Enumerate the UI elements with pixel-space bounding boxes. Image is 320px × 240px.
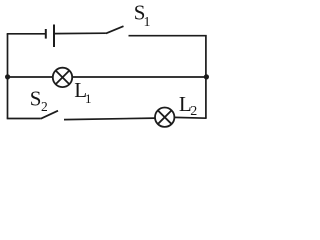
wire: left vertical (node from top-left corner down to bottom-left corner) bbox=[7, 34, 9, 119]
svg-text:L2: L2 bbox=[179, 92, 197, 119]
battery (cell): long positive plate bbox=[53, 25, 55, 48]
wire: lamp L2 to bottom-right corner bbox=[174, 116, 206, 119]
wire: S1 right contact, top-right corner, right vertical down to bottom-right corner bbox=[129, 36, 206, 119]
wire: middle branch right segment from lamp L1 to right junction bbox=[72, 76, 206, 78]
wire: S2 right contact to lamp L2 bbox=[64, 118, 155, 120]
switch S1 blade (open) bbox=[106, 26, 124, 33]
wire: battery to switch S1 pivot bbox=[54, 32, 106, 34]
node: junction dot right bbox=[204, 74, 209, 79]
battery (cell): short negative plate bbox=[45, 29, 47, 39]
wire: middle branch left segment to lamp L1 bbox=[8, 76, 54, 78]
lamp L1 (circle with cross) bbox=[53, 68, 72, 87]
switch S2 blade (open) bbox=[41, 111, 58, 119]
svg-text:S1: S1 bbox=[134, 1, 151, 31]
wire: bottom-left horizontal from corner to switch S2 pivot bbox=[7, 118, 41, 120]
svg-text:S2: S2 bbox=[30, 87, 48, 114]
svg-text:L1: L1 bbox=[74, 78, 91, 106]
wire: top-left horizontal from corner to battery bbox=[7, 33, 46, 35]
lamp L2 (circle with cross) bbox=[155, 108, 174, 127]
node: junction dot left (middle branch tap) bbox=[5, 74, 10, 79]
